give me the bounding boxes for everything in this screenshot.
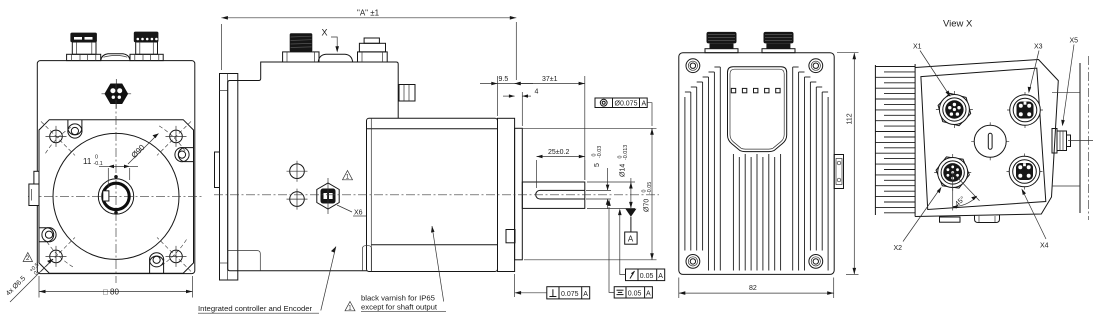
svg-text:4: 4 <box>535 89 539 96</box>
svg-text:9.5: 9.5 <box>499 76 509 83</box>
svg-text:X5: X5 <box>1070 38 1079 45</box>
svg-text:82: 82 <box>749 285 757 292</box>
svg-text:112: 112 <box>847 113 854 124</box>
svg-text:Ø70: Ø70 <box>644 199 651 212</box>
svg-text:0.075: 0.075 <box>561 291 579 298</box>
svg-text:-0.013: -0.013 <box>623 145 629 160</box>
svg-text:A: A <box>583 291 588 298</box>
svg-text:□ 80: □ 80 <box>103 288 120 297</box>
svg-text:A: A <box>628 235 634 244</box>
svg-text:"A" ±1: "A" ±1 <box>357 9 380 18</box>
svg-text:0: 0 <box>94 155 99 161</box>
svg-text:X2: X2 <box>894 245 903 252</box>
svg-text:X1: X1 <box>913 44 922 51</box>
svg-text:0.05: 0.05 <box>640 273 654 280</box>
svg-text:Integrated controller and Enco: Integrated controller and Encoder <box>198 304 313 313</box>
svg-text:X4: X4 <box>1040 243 1049 250</box>
svg-text:5: 5 <box>594 163 601 167</box>
svg-text:black varnish for IP65: black varnish for IP65 <box>361 294 435 303</box>
svg-text:View X: View X <box>943 19 973 30</box>
svg-text:A: A <box>658 273 663 280</box>
svg-text:-0.03: -0.03 <box>597 146 603 158</box>
svg-text:Ø14: Ø14 <box>620 164 627 177</box>
svg-text:37±1: 37±1 <box>542 76 558 83</box>
svg-text:A: A <box>646 290 651 297</box>
svg-text:Ø0.075: Ø0.075 <box>615 101 638 108</box>
svg-text:0.05: 0.05 <box>628 290 642 297</box>
svg-text:-0.05: -0.05 <box>647 182 653 194</box>
svg-text:25±0.2: 25±0.2 <box>548 149 569 156</box>
svg-text:X6: X6 <box>354 210 363 217</box>
svg-text:X: X <box>322 28 328 38</box>
svg-text:11: 11 <box>83 157 92 166</box>
svg-text:except for shaft output: except for shaft output <box>361 303 438 312</box>
svg-text:X3: X3 <box>1034 44 1043 51</box>
svg-text:A: A <box>642 101 647 108</box>
